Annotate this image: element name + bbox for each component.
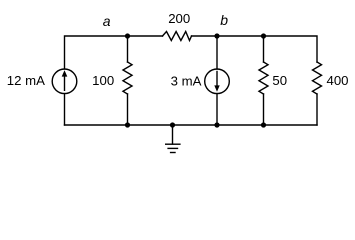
resistor R1 200 [163, 32, 192, 41]
svg-text:a: a [103, 13, 111, 29]
node a junction dot [125, 33, 130, 38]
svg-text:3 mA: 3 mA [171, 73, 202, 88]
svg-text:12 mA: 12 mA [7, 73, 45, 88]
arrow of 3 mA source (down) [214, 71, 219, 92]
wire 50-ohm branch top [263, 36, 265, 62]
svg-text:100: 100 [92, 73, 114, 88]
arrow of 12 mA source (up) [62, 70, 68, 91]
svg-text:400: 400 [327, 73, 349, 88]
wire right-bottom segment [316, 94, 318, 125]
wire 50-ohm branch bottom [263, 94, 265, 125]
svg-text:50: 50 [272, 73, 287, 88]
wire top-left segment (corner to resistor 200) [65, 36, 163, 69]
wire node a branch top [127, 36, 129, 62]
resistor R4 400 [313, 62, 322, 94]
junction dot ground [170, 122, 175, 127]
junction dot top of 50-ohm [261, 33, 266, 38]
wire top-right segment (resistor 200 to right corner) [192, 36, 318, 62]
resistor R2 100 [123, 62, 132, 94]
wire node a branch bottom [127, 94, 129, 125]
junction dot bottom of node a branch [125, 122, 130, 127]
ground [166, 125, 180, 153]
svg-text:b: b [220, 12, 228, 28]
wire node b branch top [216, 36, 218, 69]
resistor R3 50 [259, 62, 268, 94]
current source I1 12 mA [52, 69, 77, 94]
wire node b branch bottom [216, 94, 218, 125]
wire left-bottom segment [64, 94, 66, 125]
current source I2 3 mA [205, 69, 230, 94]
junction dot bottom of node b branch [214, 122, 219, 127]
svg-text:200: 200 [168, 11, 190, 26]
junction dot bottom of 50-ohm [261, 122, 266, 127]
wire bottom [65, 124, 318, 126]
node b junction dot [214, 33, 219, 38]
